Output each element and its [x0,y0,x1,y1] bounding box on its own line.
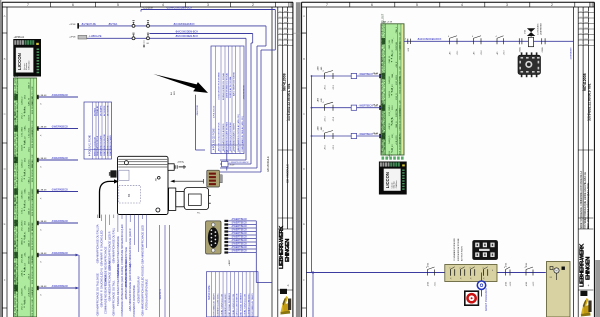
svg-text:+2P08-A1: +2P08-A1 [14,36,25,39]
svg-text:-B5/COMODEM-BOX: -B5/COMODEM-BOX [175,35,198,38]
svg-text:5: 5 [117,3,119,7]
svg-text:CAN_LO: CAN_LO [24,263,27,271]
svg-text:BROCHE COULEUR DES FILS: BROCHE COULEUR DES FILS [219,122,221,151]
svg-text:SIGNAL AV: SIGNAL AV [96,105,99,116]
svg-text:AV SORTIE: AV SORTIE [103,105,106,116]
svg-text:1: 1 [450,267,451,269]
svg-text:Bearb.-Nr.: Bearb.-Nr. [281,83,284,91]
svg-text:GND_SIG: GND_SIG [32,95,34,105]
svg-text:D: D [4,167,6,171]
svg-text:B4: B4 [127,193,131,197]
svg-text:+UB_K3: +UB_K3 [392,84,394,92]
svg-text:POTEAU AV/DISPONIBLE: POTEAU AV/DISPONIBLE [145,279,149,310]
svg-text:-X64A: -X64A [519,47,522,53]
svg-text:1: 1 [215,151,216,153]
svg-text:7: 7 [326,3,328,7]
svg-text:+UB_K30: +UB_K30 [32,286,34,296]
svg-text:6: 6 [72,3,74,7]
svg-text:-3/WERKBECK: -3/WERKBECK [51,252,69,255]
svg-text:CAN_L: CAN_L [395,26,398,33]
svg-text:4: 4 [483,267,484,269]
svg-text:-3/WERKBECK: -3/WERKBECK [51,220,69,223]
svg-text:GND_S: GND_S [22,237,24,245]
svg-text:+UB_K30: +UB_K30 [28,287,30,297]
svg-text:AU TROP-PLEIN: AU TROP-PLEIN [460,246,463,261]
svg-text:+4B0: +4B0 [318,66,320,70]
svg-text:4MRT OVIRGENCE HYDRAULIQUE LAN: 4MRT OVIRGENCE HYDRAULIQUE LANCE [587,182,590,229]
svg-text:+3B.08: +3B.08 [39,253,47,255]
svg-text:CAN_LO: CAN_LO [27,191,30,200]
svg-text:-GBA-M/DESAFFICHAGE (LED R: -GBA-M/DESAFFICHAGE (LED R [108,231,112,271]
svg-text:LS2_I: LS2_I [22,208,24,214]
svg-text:+UB_: +UB_ [25,284,27,290]
svg-text:+3B.08: +3B.08 [39,158,47,160]
svg-text:CAN_LO: CAN_LO [21,159,24,168]
svg-text:DIGI: DIGI [25,94,27,99]
svg-text:+K5.1: +K5.1 [324,144,326,150]
svg-text:AVEC TEMPS DE SORTIE: AVEC TEMPS DE SORTIE [233,71,236,96]
svg-text:DIGITAL: DIGITAL [27,255,30,264]
svg-text:DONNEES A LIRE AVEC: DONNEES A LIRE AVEC [247,293,250,317]
svg-text:A: A [303,14,305,18]
svg-text:-3/WERKBECK: -3/WERKBECK [244,84,246,100]
svg-text:-GBA-M/MOSEWFFICHAGE (LED: -GBA-M/MOSEWFFICHAGE (LED [140,225,144,265]
svg-text:CAN_H: CAN_H [27,82,30,89]
svg-text:COMM. RANDS IN TIME-AC (MIN.-0: COMM. RANDS IN TIME-AC (MIN.-001) [241,116,244,152]
svg-text:+4B07: +4B07 [229,259,231,266]
svg-text:4: 4 [162,3,164,7]
svg-text:-X40: -X40 [321,99,323,103]
svg-text:+UB_K3: +UB_K3 [392,49,394,57]
svg-text:-/WERTBECK: -/WERTBECK [359,106,374,108]
svg-text:LS2_IN: LS2_IN [392,116,394,123]
svg-text:ENTREE: ENTREE [94,107,96,116]
svg-text:-B/COMODEM-BOX: -B/COMODEM-BOX [173,23,195,26]
svg-text:-/WERTBECK: -/WERTBECK [359,134,374,136]
svg-text:4-POL SU-11 FICHE :: 4-POL SU-11 FICHE : [90,133,92,156]
svg-text:DESIGNATION DES BORNES: DESIGNATION DES BORNES [222,123,225,151]
svg-text:LS2_I: LS2_I [22,176,24,182]
svg-text:SORTIE AV DU SIGNAL: SORTIE AV DU SIGNAL [229,75,232,98]
svg-text:4-POL RJ-CD FICHE :: 4-POL RJ-CD FICHE : [214,127,216,150]
svg-text:DONNEES A LIRE AVEC: DONNEES A LIRE AVEC [216,293,219,317]
svg-text:5: 5 [416,3,418,7]
svg-text:DIGITAL: DIGITAL [395,108,398,117]
svg-text:-3/WERKBECK: -3/WERKBECK [51,126,69,129]
svg-text:4-POL RJ-CD: 4-POL RJ-CD [214,105,216,118]
svg-text:COMM. S-BUS LICCON: COMM. S-BUS LICCON [221,293,223,316]
svg-text:-GBA-M/DESAFFICHAGE (LED ROUGE: -GBA-M/DESAFFICHAGE (LED ROUGE) [128,264,132,312]
svg-text:(-W08/TECK-BECK: (-W08/TECK-BECK [230,162,250,164]
svg-text:LS2_IN01: LS2_IN01 [28,127,30,138]
svg-text:CAN_H: CAN_H [395,121,398,128]
svg-text:3: 3 [470,267,471,269]
svg-text:Bearb.-Nr.: Bearb.-Nr. [582,83,585,91]
svg-text:QUATREMAS: QUATREMAS [540,22,543,35]
svg-text:+UB_K15: +UB_K15 [22,190,24,200]
svg-text:+UB_: +UB_ [25,251,27,257]
svg-text:-W08/TECK: -W08/TECK [160,288,162,300]
svg-text:-GBV-M/AFFICHAGE OU TALL: -GBV-M/AFFICHAGE OU TALL [112,227,116,264]
svg-text:-X40: -X40 [321,67,323,71]
svg-text:(COMODEM): (COMODEM) [538,23,540,35]
svg-text:DIGITAL: DIGITAL [398,107,401,116]
svg-text:LS2_OUT4: LS2_OUT4 [399,133,401,144]
svg-text:-GBV-M/AFFICHAGE OU TALL: -GBV-M/AFFICHAGE OU TALL [112,280,116,317]
svg-text:M: M [555,269,557,273]
svg-text:-3/WERKBECK: -3/WERKBECK [51,94,69,97]
svg-text:LICCON: LICCON [17,53,22,70]
svg-text:+K5.1: +K5.1 [324,84,326,90]
svg-text:DIGITAL: DIGITAL [31,159,34,168]
svg-text:Zeichn.-Nr.: Zeichn.-Nr. [286,112,289,121]
svg-text:LS2_OUT4: LS2_OUT4 [22,220,24,231]
svg-text:-L1/BDA-PE: -L1/BDA-PE [89,35,102,38]
svg-text:GB-MODULE: GB-MODULE [266,156,270,172]
svg-text:WO: WO [174,91,176,95]
svg-text:DISPONIBLE(S) DATE ENTREE: DISPONIBLE(S) DATE ENTREE [226,121,229,151]
svg-text:DU TEMPS: DU TEMPS [100,105,102,116]
svg-text:COULEUR DES FILS ENTREE: COULEUR DES FILS ENTREE [219,71,221,100]
svg-text:-3/WERTBECK: -3/WERTBECK [231,218,248,221]
svg-text:+UB_K: +UB_K [22,270,24,277]
svg-text:3: 3 [207,3,209,7]
svg-text:-3/WERKBECK: -3/WERKBECK [51,285,69,288]
svg-text:DIGITAL: DIGITAL [31,254,34,263]
svg-text:LS2_O: LS2_O [22,303,24,310]
svg-text:EHINGEN: EHINGEN [585,257,591,280]
svg-text:F: F [4,278,6,282]
svg-text:-B44/COMODEM-BOX: -B44/COMODEM-BOX [417,38,442,41]
svg-text:-B5/TDA: -B5/TDA [108,23,118,26]
svg-text:+3B.08: +3B.08 [39,95,47,97]
svg-text:DISPONIBLE AV TEMPS: DISPONIBLE AV TEMPS [213,293,216,317]
svg-text:-GBV-M/AFFICHAGE OU TALLSAGE: -GBV-M/AFFICHAGE OU TALLSAGE [95,273,99,317]
svg-text:GND SIGNAL DONNEES: GND SIGNAL DONNEES [228,292,231,316]
svg-text:P.U.: P.U. [197,213,201,215]
svg-text:DISPONIBLE AV TEMPS: DISPONIBLE AV TEMPS [251,293,254,317]
svg-text:5: 5 [107,153,108,155]
svg-text:LS2_OUT4: LS2_OUT4 [389,104,391,115]
svg-text:+3B.08: +3B.08 [39,286,47,288]
svg-text:+UB_K: +UB_K [28,273,30,280]
svg-text:CAN_HI: CAN_HI [21,288,24,296]
svg-text:DIGITAL: DIGITAL [31,222,34,231]
svg-text:CAN_LO: CAN_LO [398,41,401,50]
svg-text:+3B.08: +3B.08 [39,221,47,223]
svg-text:4: 4 [227,151,228,153]
svg-text:-X40: -X40 [321,127,323,131]
svg-text:+4B0: +4B0 [318,98,320,102]
svg-text:COMMANDE MOSE/AFFICHAGE: COMMANDE MOSE/AFFICHAGE [104,246,108,286]
svg-text:GND_SIG: GND_SIG [389,40,391,50]
svg-text:DATE ENTREE DU SIGNAL: DATE ENTREE DU SIGNAL [226,72,229,98]
svg-text:-B4/COMODEM-BOX: -B4/COMODEM-BOX [175,30,198,33]
svg-text:LS2_I: LS2_I [22,113,24,119]
svg-text:-X19: -X19 [408,48,410,52]
svg-text:CAN_H: CAN_H [388,90,391,98]
svg-text:LS2_OU: LS2_OU [25,199,27,207]
svg-text:+UB_K: +UB_K [396,61,398,68]
svg-text:C: C [4,112,6,116]
svg-text:4: 4 [461,3,463,7]
svg-text:GND_: GND_ [392,37,394,43]
svg-text:7: 7 [27,3,29,7]
svg-text:-GBA-M/DESAFFICHAGE (LED R: -GBA-M/DESAFFICHAGE (LED R [128,228,132,268]
svg-text:EVERGENCE ALTROPAIE: EVERGENCE ALTROPAIE [457,238,460,261]
svg-text:LICCON: LICCON [385,172,390,188]
svg-text:B: B [4,57,6,61]
svg-text:DISPONIBLE(S) AVEC TEMPS: DISPONIBLE(S) AVEC TEMPS [233,123,236,151]
svg-text:LS2_IN01: LS2_IN01 [22,253,24,263]
svg-text:+3B.08: +3B.08 [39,126,47,128]
svg-text:+UB LICCON MONITOR: +UB LICCON MONITOR [237,293,239,316]
svg-text:CAN_HI: CAN_HI [388,76,391,84]
svg-text:5: 5 [231,151,232,153]
svg-text:CAN_: CAN_ [24,124,27,130]
svg-text:-GBA-M/MOSEWFFICHAGE (LED ROUG: -GBA-M/MOSEWFFICHAGE (LED ROUGE) [140,265,144,316]
svg-text:A: A [4,14,6,18]
svg-text:SUB-D FICHE :: SUB-D FICHE : [209,284,211,300]
svg-text:-W850/DISTRIBUTEUR MONTAGE: -W850/DISTRIBUTEUR MONTAGE [124,247,128,288]
svg-text:+UB_K1: +UB_K1 [25,168,27,176]
svg-text:E: E [303,222,305,226]
svg-text:-GBV-M/AFF. P. GAUCHE (LED: -GBV-M/AFF. P. GAUCHE (LED [99,230,103,267]
svg-text:CAN_H: CAN_H [27,208,30,215]
svg-text:-B1N4/COMODEM-BOX: -B1N4/COMODEM-BOX [166,6,192,9]
svg-text:-B1/TECH-PE: -B1/TECH-PE [81,23,96,26]
svg-text:C: C [303,112,305,116]
svg-text:CABLE RANDS IN OUTRE-AC (MIN.-: CABLE RANDS IN OUTRE-AC (MIN.-001) [237,114,240,152]
svg-text:+2P08: +2P08 [69,24,76,26]
svg-text:-COMODEM: -COMODEM [571,47,573,60]
svg-text:DISPONIBLE(S) ET SORTIE AV: DISPONIBLE(S) ET SORTIE AV [229,122,232,151]
svg-text:GND_SIG: GND_SIG [28,222,30,232]
svg-text:CANbus: CANbus [395,180,398,188]
svg-text:+UB_K15: +UB_K15 [28,159,30,169]
svg-text:DIGI: DIGI [25,157,27,162]
svg-text:TRAVAIL DESACTIVE/COMMANDE: TRAVAIL DESACTIVE/COMMANDE [116,236,120,278]
svg-text:3: 3 [224,151,225,153]
svg-text:DIGITAL: DIGITAL [395,41,398,50]
svg-text:6: 6 [110,153,111,155]
svg-text:6: 6 [234,151,235,153]
svg-text:+UB_K1: +UB_K1 [25,231,27,239]
svg-text:+UB_K15: +UB_K15 [32,127,34,137]
svg-text:6: 6 [371,3,373,7]
svg-text:-3/WERKBECK: -3/WERKBECK [51,189,69,192]
svg-text:4: 4 [492,270,493,272]
svg-text:COMMANDE D'URGENCE: COMMANDE D'URGENCE [453,237,456,261]
svg-text:-X2/DISTRIBUTEUR AV: -X2/DISTRIBUTEUR AV [136,276,140,304]
svg-text:2: 2 [252,3,254,7]
svg-text:+UB_K3: +UB_K3 [392,144,394,152]
svg-text:DIGITAL: DIGITAL [398,75,401,84]
svg-text:3: 3 [100,153,101,155]
svg-text:DE SORTIE: DE SORTIE [107,105,109,116]
svg-text:CAN_HI: CAN_HI [27,98,30,106]
svg-text:DIGIT: DIGIT [28,114,30,120]
svg-text:EHINGEN: EHINGEN [285,239,291,262]
svg-text:-GBV-M/AFF. P. GAUCHE (LED V): -GBV-M/AFF. P. GAUCHE (LED V) [99,268,103,308]
svg-text:2: 2 [220,151,221,153]
svg-text:B: B [303,57,305,61]
svg-text:+4B0: +4B0 [318,126,320,130]
svg-text:-L25/BDM: -L25/BDM [143,7,153,9]
svg-text:LS2_IN01: LS2_IN01 [32,189,34,199]
svg-text:7: 7 [239,151,240,153]
svg-text:GND_: GND_ [25,187,27,193]
svg-text:F: F [303,278,305,282]
svg-text:Zeichn.-Nr.: Zeichn.-Nr. [587,112,590,121]
svg-text:DIGIT: DIGIT [22,144,24,150]
svg-text:SYSTEME HYDRAULIQUE LANDE GAUC: SYSTEME HYDRAULIQUE LANDE GAUCHE AVEC LE [584,172,587,229]
svg-text:DONNEES A LIRE AVEC: DONNEES A LIRE AVEC [224,293,227,317]
svg-text:COMMANDE MOSE/AFFICH (LED: COMMANDE MOSE/AFFICH (LED [120,224,124,265]
svg-text:DIGITAL GND_SIG +UB_K15 LS2_OU: DIGITAL GND_SIG +UB_K15 LS2_OUT4 C [16,274,19,317]
svg-text:+K5.1: +K5.1 [324,116,326,122]
svg-text:CAN_L: CAN_L [27,176,30,183]
svg-text:4: 4 [104,153,105,155]
svg-text:-GBL/COM: -GBL/COM [197,105,199,116]
svg-text:2: 2 [97,153,98,155]
svg-text:DIGI: DIGI [25,220,27,225]
svg-text:BORNE ENTREE DU SIGNAL: BORNE ENTREE DU SIGNAL [222,72,225,100]
svg-text:LS2_I: LS2_I [28,146,30,152]
svg-text:-3/WERKBECK: -3/WERKBECK [51,157,69,160]
svg-text:LS2_IN01: LS2_IN01 [22,126,24,136]
svg-text:3: 3 [506,3,508,7]
svg-text:POIDS/DIST. DISPONIBLE: POIDS/DIST. DISPONIBLE [132,285,136,317]
svg-text:DIGI: DIGI [392,105,394,110]
svg-text:LS2_O: LS2_O [396,93,398,100]
svg-text:COMM. S-BUS LICCON: COMM. S-BUS LICCON [233,293,235,316]
svg-text:+2P08: +2P08 [69,36,76,38]
svg-text:-/WERTBECK: -/WERTBECK [359,74,374,76]
svg-text:-GBV-M/AFFICHAGE OU TALLSA: -GBV-M/AFFICHAGE OU TALLSA [95,224,99,264]
svg-text:C/Monitor: C/Monitor [28,60,31,70]
svg-text:GND_SI: GND_SI [25,296,27,304]
svg-text:GB-HMODULE: GB-HMODULE [286,164,290,183]
svg-text:1: 1 [94,153,95,155]
svg-text:COMMANDE MOSE/AFFICH (LED JAUN: COMMANDE MOSE/AFFICH (LED JAUNE) [120,266,124,317]
svg-text:2: 2 [460,267,461,269]
svg-text:+UB_K: +UB_K [389,122,391,129]
svg-text:GND SIGNAL DONNEES: GND SIGNAL DONNEES [240,292,243,316]
svg-text:ARRET D'URGENCE, COMMANDE A DI: ARRET D'URGENCE, COMMANDE A DISTANCE DE … [580,170,583,229]
svg-text:+3B.08: +3B.08 [39,189,47,191]
svg-text:CAN_LO: CAN_LO [388,135,391,144]
svg-text:LS2_IN01: LS2_IN01 [396,74,398,85]
svg-text:CAN_: CAN_ [391,72,394,78]
svg-text:-3/WERTBECK: -3/WERTBECK [231,250,248,253]
svg-text:E: E [4,222,6,226]
svg-text:CAN_H: CAN_H [27,240,30,247]
svg-text:CAN_H: CAN_H [388,56,391,64]
svg-text:CAN_LO: CAN_LO [24,136,27,144]
svg-text:2: 2 [551,3,553,7]
svg-text:COMM. S-BUS LICCON: COMM. S-BUS LICCON [244,293,246,316]
svg-text:CAN_LO: CAN_LO [21,96,24,105]
svg-text:D: D [303,167,305,171]
svg-text:ARRET D'URGENCE: ARRET D'URGENCE [485,288,488,311]
svg-text:+UB_K30: +UB_K30 [396,135,398,145]
svg-text:-X64B: -X64B [542,47,544,53]
